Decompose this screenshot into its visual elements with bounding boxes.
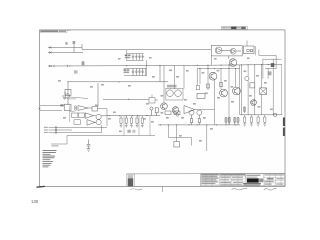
transistor Q15 — [62, 93, 70, 100]
wire: bus risers — [124, 116, 150, 136]
wire: bank join — [146, 60, 148, 75]
input labels — [44, 127, 48, 128]
capacitor C8 marks — [127, 130, 130, 133]
junction dots upper sub bus — [200, 68, 237, 69]
node 2 label leader — [73, 45, 75, 53]
op-amp U10A — [215, 47, 222, 54]
label above diff pair — [167, 85, 177, 88]
wire: U1 output run — [97, 109, 107, 126]
op-amp U2 — [85, 113, 93, 119]
wire: U4 output — [195, 109, 215, 111]
approval stamp — [222, 26, 248, 29]
handwritten marks below title block — [131, 186, 277, 192]
junction dots center bus — [160, 124, 236, 125]
right cluster verticals — [241, 59, 273, 115]
diode bank CR row 1 — [127, 50, 144, 61]
wire: long negative rail — [48, 65, 282, 67]
wire: interstage link — [103, 98, 149, 100]
diff pair box Q3 Q4 — [166, 88, 183, 100]
transistor Q5 — [209, 72, 217, 80]
resistor R60 — [250, 83, 255, 88]
transistor Q8 — [161, 103, 168, 110]
op-amp U10B — [230, 48, 236, 54]
wire: left border input taps — [39, 106, 65, 111]
label 5 — [82, 61, 85, 65]
input connector J1 — [49, 125, 108, 133]
transistor pair Q1 Q2 — [95, 114, 101, 125]
transistor Q13 — [245, 76, 249, 80]
wire: mid distribution rail — [68, 81, 168, 83]
wire: +supply feed top left — [48, 47, 82, 49]
wire: rail drop at x160 — [159, 66, 161, 82]
transistor Q14 — [251, 100, 257, 106]
wire: U2 out — [93, 115, 96, 117]
resistor R15 — [92, 107, 97, 111]
upper-right switch wiring — [259, 50, 282, 79]
resistor R41 — [196, 86, 199, 90]
resistor R20 on feeder — [64, 82, 71, 111]
wire: right edge drop — [281, 65, 283, 115]
resistor R43 — [219, 83, 222, 87]
wire: lower return bus — [67, 135, 155, 137]
wire: top bus to gate block — [82, 44, 211, 50]
wire: main mid bus left section — [101, 115, 160, 117]
notes text block — [43, 150, 57, 167]
wire: second feed — [48, 52, 83, 54]
wire: center lower bus — [158, 124, 240, 126]
junction ticks on negative rail — [54, 65, 68, 67]
wire: gate block feed — [211, 56, 228, 65]
trim pot R38 — [150, 107, 158, 116]
wire: center sub bus — [197, 68, 240, 70]
junction dots mid rail — [67, 81, 129, 100]
transistor Q9 — [172, 107, 179, 114]
capacitor C5 with ground — [87, 140, 91, 152]
transistor Q11 — [189, 110, 194, 125]
relay K1 — [243, 46, 254, 54]
label 2 — [73, 41, 76, 44]
svg-text:138: 138 — [31, 199, 39, 204]
wire: relay drop — [247, 41, 255, 56]
crystal Y1 box — [260, 88, 267, 95]
op-amp U1 first stage — [75, 106, 93, 111]
wire: feeder drop to preamp — [97, 83, 99, 107]
diode bank CR row 2 — [124, 68, 147, 75]
bottom-left corner blob — [37, 185, 46, 188]
resistor R42 — [206, 84, 209, 88]
regulator box VR1 — [197, 94, 205, 99]
component value labels — [58, 57, 273, 142]
wire: Q15 emitter run — [70, 97, 88, 99]
revision note strip — [40, 30, 71, 33]
label blob — [268, 71, 272, 75]
resistor R12 — [78, 113, 84, 117]
resistor R11 — [72, 113, 78, 117]
transistor Q6 — [220, 89, 228, 97]
wire: right bus — [240, 114, 282, 116]
fuse F1 label — [271, 63, 275, 67]
label near R20 — [60, 104, 63, 106]
transistor Q10 — [229, 59, 237, 67]
ground symbols under bank — [120, 125, 144, 127]
label tick — [74, 70, 78, 73]
connector J2 — [274, 113, 277, 116]
resistor pair R50 R51 — [225, 117, 239, 125]
resistor R37 — [149, 95, 158, 104]
wire: center verticals — [164, 65, 240, 125]
resistor bank R30-R34 with grounds — [120, 116, 143, 125]
wire: bias network below bus — [168, 125, 206, 151]
wire: output stub with label — [51, 136, 67, 145]
pots above lower bus — [165, 111, 180, 116]
title block — [127, 174, 285, 187]
gate block U10 — [211, 45, 242, 56]
resistor R13 — [74, 120, 80, 125]
transistor Q7 — [233, 87, 241, 95]
wire: feedback stub — [68, 99, 76, 122]
op-amp U4 — [184, 106, 195, 114]
resistor R61 with ground — [244, 107, 246, 114]
op-amp U3 — [87, 120, 95, 126]
junction dots negative rail — [69, 64, 268, 66]
resistor R55 — [174, 142, 180, 148]
transistor Q12 — [197, 110, 202, 125]
hole punch marks on right border — [283, 118, 285, 127]
junction dots mid bus — [109, 115, 148, 116]
resistor bank R63-R66 with grounds — [244, 115, 266, 124]
